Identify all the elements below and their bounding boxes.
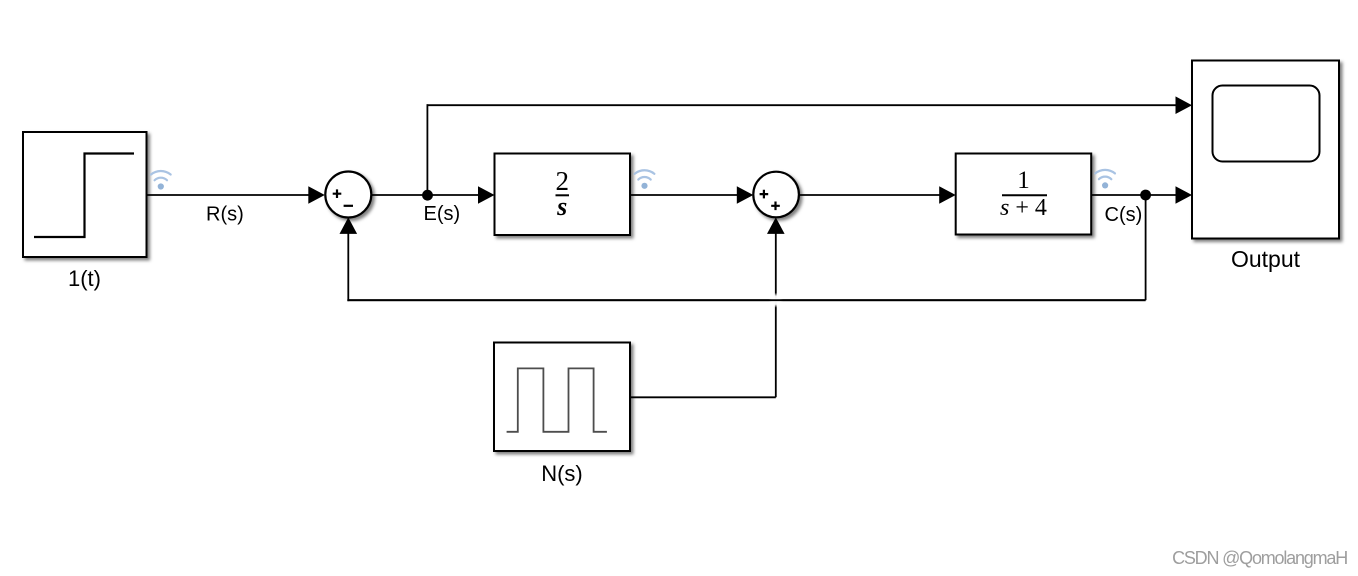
crossover gap halo <box>768 293 783 308</box>
summing junction S1 <box>325 172 371 218</box>
step icon inside source block <box>34 154 134 238</box>
G2 fraction bar <box>1002 194 1047 196</box>
node E(s) branch dot <box>422 190 433 201</box>
svg-text:CSDN @QomolangmaH: CSDN @QomolangmaH <box>1172 548 1347 568</box>
svg-text:N(s): N(s) <box>541 461 583 486</box>
pulse icon inside N(s) block <box>507 368 607 431</box>
wire branch up from E(s) <box>426 104 428 195</box>
arrowhead into G2 <box>939 186 956 204</box>
wireless icon 3 <box>1095 170 1115 189</box>
svg-text:s + 4: s + 4 <box>1000 195 1047 221</box>
arrowhead into Output port 2 <box>1176 186 1193 204</box>
wire N(s) vertical up to sum2 <box>775 233 777 397</box>
wireless icon 1 <box>151 171 171 190</box>
feedback wire up into sum1 <box>347 233 349 301</box>
feedback wire bottom horizontal <box>347 299 1145 301</box>
arrowhead into Output port 1 <box>1176 96 1193 114</box>
wire G1 to sum2 <box>630 194 738 196</box>
wire G2 to Output port 2 <box>1091 194 1177 196</box>
wire step to sum1 <box>147 194 310 196</box>
scope block Output <box>1192 61 1339 239</box>
svg-text:1: 1 <box>1017 167 1030 194</box>
svg-text:C(s): C(s) <box>1105 204 1143 226</box>
svg-text:E(s): E(s) <box>424 203 461 225</box>
arrowhead into G1 <box>478 186 495 204</box>
transfer function block G2 1/(s+4) <box>956 154 1091 235</box>
arrowhead into sum2 bottom <box>767 217 785 234</box>
svg-text:s: s <box>556 192 567 221</box>
feedback wire down from C(s) <box>1145 195 1147 300</box>
S2 plus sign (left input) <box>760 190 769 199</box>
arrowhead into sum1 bottom <box>340 217 358 234</box>
svg-text:1(t): 1(t) <box>68 266 101 291</box>
S1 minus sign (bottom input) <box>344 205 353 207</box>
top wire to Output port 1 <box>427 104 1178 106</box>
scope screen <box>1213 86 1320 162</box>
wire sum2 to G2 <box>799 194 941 196</box>
wireless icon 2 <box>635 170 655 189</box>
arrowhead into sum2 <box>737 186 754 204</box>
S2 plus sign (bottom input) <box>771 202 780 211</box>
transfer function block G1 2/s <box>495 154 631 236</box>
disturbance source block N(s) <box>494 343 630 452</box>
arrowhead into sum1 <box>308 186 325 204</box>
node C(s) branch dot <box>1140 190 1151 201</box>
S1 plus sign (left input) <box>333 189 342 198</box>
svg-text:R(s): R(s) <box>206 204 244 226</box>
step source block 1(t) <box>23 132 147 257</box>
wire sum1 to G1 <box>371 194 479 196</box>
feedback wire bottom horizontal (over crossover) <box>347 299 1145 301</box>
summing junction S2 <box>753 172 799 218</box>
svg-text:Output: Output <box>1231 246 1301 272</box>
G1 fraction bar <box>556 194 570 196</box>
wire N(s) output horizontal <box>630 396 776 398</box>
